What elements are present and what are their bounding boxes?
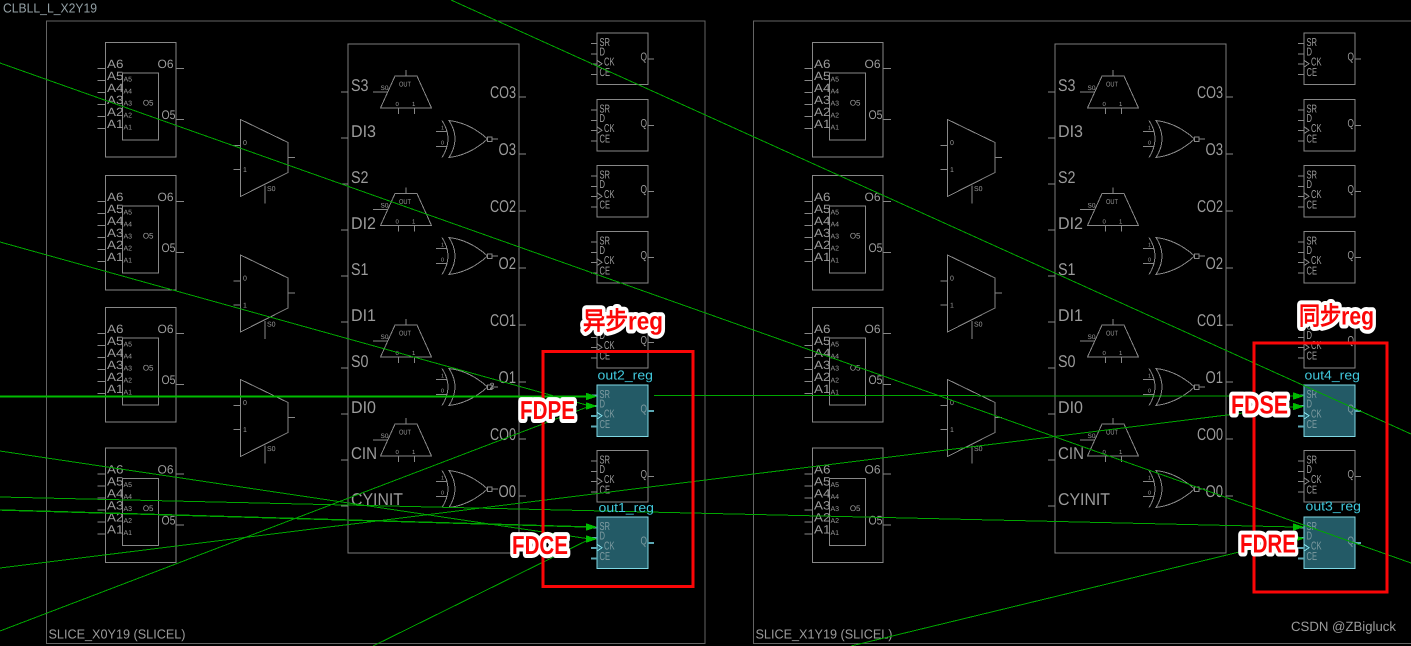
svg-text:out4_reg: out4_reg [1305, 368, 1361, 383]
flip-flop B5FF out2_reg FDPE (slice0) [591, 385, 654, 437]
svg-text:SLICE_X0Y19 (SLICEL): SLICE_X0Y19 (SLICEL) [49, 627, 186, 642]
wire net into out3_reg D ascending [851, 539, 1295, 646]
wire net L2 crossing diagonal [451, 0, 1411, 434]
svg-text:2: 2 [490, 381, 495, 391]
flip-flop DFF (slice1) [1298, 33, 1361, 85]
wire net bus to out2_reg SR (thick) [0, 396, 590, 398]
wire net into out3_reg SR long [0, 497, 1295, 527]
carry xor stage3 (slice1) [1143, 121, 1205, 158]
mux F7BMUX (slice0) [234, 380, 296, 464]
flip-flop CFF (slice1) [1298, 166, 1361, 218]
flip-flop D5FF (slice1) [1298, 100, 1361, 152]
svg-text:out1_reg: out1_reg [599, 500, 655, 515]
arrow into out4_reg SR [1293, 392, 1304, 400]
svg-text:out3_reg: out3_reg [1306, 499, 1362, 514]
carry xor stage1 (slice1) [1143, 369, 1205, 406]
flip-flop BFF (slice1) [1298, 317, 1361, 369]
svg-text:FDCE: FDCE [512, 530, 568, 560]
mux F7AMUX (slice0) [234, 120, 296, 204]
LUT A6LUT (slice0) [98, 448, 185, 563]
SLICE_X0Y19 boundary box [47, 21, 706, 644]
LUT C6LUT (slice0) [98, 176, 185, 291]
arrow into out4_reg D [1293, 403, 1304, 411]
LUT A6LUT (slice1) [805, 448, 892, 563]
flip-flop DFF (slice0) [591, 33, 654, 85]
carry xor stage2 (slice0) [436, 238, 498, 275]
wire net into out2_reg D lower [0, 406, 590, 631]
flip-flop CFF (slice0) [591, 166, 654, 218]
flip-flop A5FF out1_reg FDCE (slice0) [591, 517, 654, 569]
LUT B6LUT (slice0) [98, 308, 185, 423]
carry xor stage0 (slice1) [1143, 471, 1205, 508]
svg-text:SLICE_X1Y19 (SLICEL): SLICE_X1Y19 (SLICEL) [756, 627, 893, 642]
carry xor stage2 (slice1) [1143, 238, 1205, 275]
carry mux stage0 (slice0) [373, 418, 432, 462]
carry mux stage0 (slice1) [1080, 418, 1139, 462]
LUT D6LUT (slice1) [805, 43, 892, 158]
wire net into out1_reg SR [0, 510, 590, 527]
wire net out2_reg Q to out4_reg SR [654, 395, 1295, 398]
mux F7BMUX (slice1) [941, 380, 1003, 464]
wire net into out1_reg D upper [0, 451, 590, 539]
arrow into out3_reg SR [1293, 523, 1304, 531]
arrow into out1_reg SR [586, 523, 597, 531]
carry mux stage3 (slice0) [373, 70, 432, 114]
mux F7AMUX (slice1) [941, 120, 1003, 204]
flip-flop AFF (slice1) [1298, 451, 1361, 503]
carry mux stage2 (slice0) [373, 188, 432, 232]
flip-flop BFF (slice0) [591, 317, 654, 369]
LUT B6LUT (slice1) [805, 308, 892, 423]
flip-flop C5FF (slice1) [1298, 232, 1361, 284]
flip-flop D5FF (slice0) [591, 100, 654, 152]
carry xor stage1 (slice0) [436, 369, 498, 406]
arrow into out2_reg D [586, 402, 597, 410]
LUT C6LUT (slice1) [805, 176, 892, 291]
flip-flop A5FF out3_reg FDRE (slice1) [1298, 517, 1361, 569]
flip-flop B5FF out4_reg FDSE (slice1) [1298, 385, 1361, 437]
svg-text:CLBLL_L_X2Y19: CLBLL_L_X2Y19 [3, 1, 97, 16]
flip-flop C5FF (slice0) [591, 232, 654, 284]
wire net into out4_reg D long ascending [0, 407, 1295, 569]
carry mux stage1 (slice0) [373, 319, 432, 363]
CARRY4 (slice1) [1048, 44, 1233, 553]
svg-text:异步reg: 异步reg [583, 308, 663, 336]
svg-text:FDRE: FDRE [1240, 529, 1296, 559]
arrow into out2_reg SR [586, 393, 597, 401]
svg-text:CSDN @ZBigluck: CSDN @ZBigluck [1291, 619, 1396, 634]
carry xor stage0 (slice0) [436, 471, 498, 508]
carry mux stage2 (slice1) [1080, 188, 1139, 232]
CARRY4 (slice0) [341, 44, 526, 553]
flip-flop AFF (slice0) [591, 451, 654, 503]
svg-text:同步reg: 同步reg [1299, 303, 1374, 331]
mux F8MUX (slice1) [941, 255, 1003, 339]
svg-text:FDPE: FDPE [520, 395, 575, 425]
carry mux stage3 (slice1) [1080, 70, 1139, 114]
SLICE_X1Y19 boundary box [754, 21, 1411, 644]
mux F8MUX (slice0) [234, 255, 296, 339]
highlight rectangle async regs [543, 352, 693, 587]
carry mux stage1 (slice1) [1080, 319, 1139, 363]
highlight rectangle sync regs [1254, 343, 1387, 592]
LUT D6LUT (slice0) [98, 43, 185, 158]
svg-text:out2_reg: out2_reg [598, 368, 654, 383]
arrow into out3_reg D [1293, 535, 1304, 543]
wire net L1 crossing diagonal [0, 63, 1411, 563]
wire net into out2_reg D upper [0, 242, 590, 406]
svg-text:FDSE: FDSE [1231, 390, 1288, 420]
carry xor stage3 (slice0) [436, 121, 498, 158]
wire net into out1_reg D lower [373, 539, 590, 646]
arrow into out1_reg D [586, 535, 597, 543]
